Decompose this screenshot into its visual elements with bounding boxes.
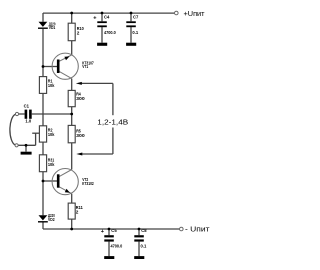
svg-text:C5: C5	[111, 228, 117, 233]
svg-text:+: +	[93, 16, 97, 22]
svg-text:0.1: 0.1	[141, 243, 147, 248]
svg-text:C4: C4	[104, 14, 110, 19]
svg-text:КТ3102: КТ3102	[82, 181, 94, 186]
svg-text:C8: C8	[141, 228, 147, 233]
svg-text:1.0: 1.0	[25, 118, 31, 123]
svg-text:2: 2	[77, 31, 80, 36]
svg-text:VD1: VD1	[49, 25, 56, 30]
svg-text:10k: 10k	[48, 162, 55, 167]
svg-text:- Uпит: - Uпит	[185, 225, 210, 234]
svg-text:300: 300	[76, 133, 85, 138]
svg-text:10k: 10k	[48, 83, 55, 88]
svg-text:4700.0: 4700.0	[104, 30, 116, 35]
svg-text:300: 300	[76, 96, 85, 101]
svg-text:10k: 10k	[48, 132, 55, 137]
svg-text:1,2-1,4В: 1,2-1,4В	[97, 118, 128, 127]
svg-text:C7: C7	[133, 14, 139, 19]
svg-text:VT1: VT1	[82, 64, 88, 69]
svg-text:2: 2	[76, 209, 79, 214]
svg-text:+Uпит: +Uпит	[184, 9, 205, 18]
svg-text:4700.0: 4700.0	[111, 243, 123, 248]
svg-text:0.1: 0.1	[132, 30, 138, 35]
svg-text:+: +	[101, 229, 105, 235]
svg-text:C1: C1	[24, 103, 30, 108]
svg-text:VD2: VD2	[48, 217, 55, 222]
